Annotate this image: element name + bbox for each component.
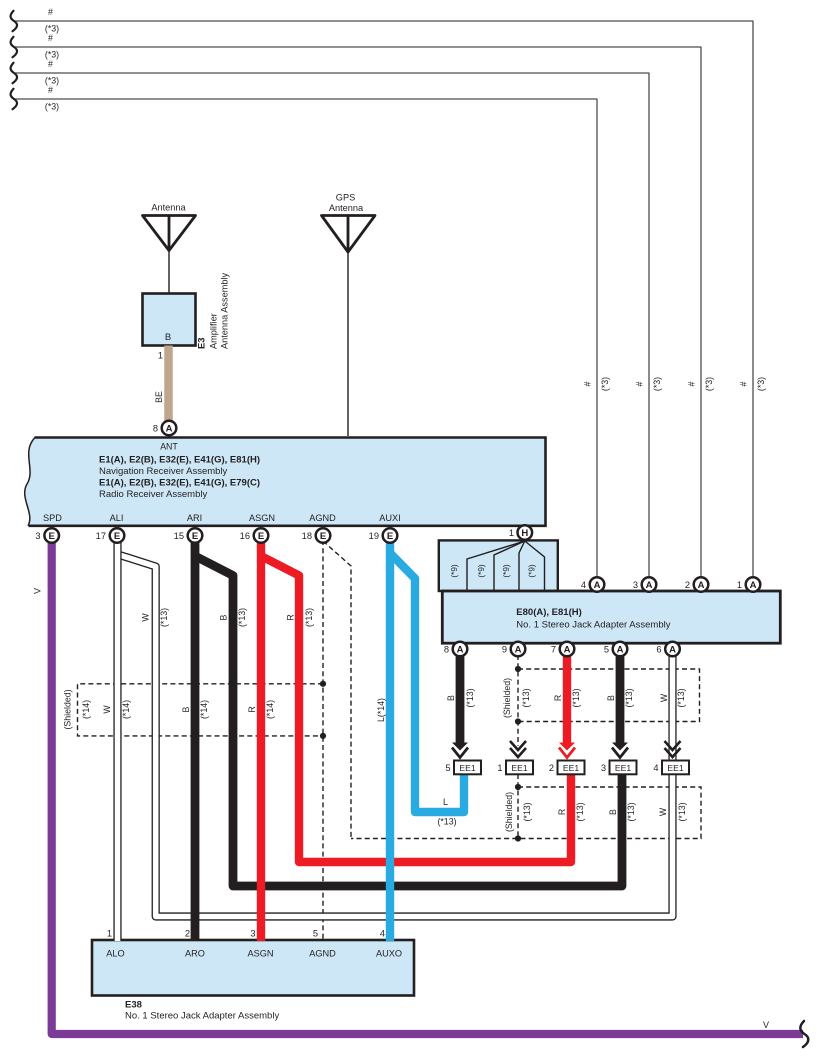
svg-text:EE1: EE1 — [615, 763, 631, 773]
svg-text:E: E — [192, 531, 198, 542]
svg-text:(*13): (*13) — [677, 802, 687, 821]
pin 3(E) SPD — [44, 528, 59, 543]
svg-text:E3: E3 — [196, 338, 207, 349]
svg-text:1: 1 — [158, 351, 163, 361]
svg-text:AUXO: AUXO — [376, 949, 402, 959]
label E3 Amplifier Antenna Assembly — [196, 272, 230, 349]
svg-text:Radio Receiver Assembly: Radio Receiver Assembly — [99, 489, 207, 500]
wire # (*3) to connector pin 2(A) of E80 — [11, 33, 715, 577]
wire R (*13) from E80 7(A) to EE1 2 — [563, 652, 571, 744]
wire # (*3) to connector pin 1(A) of E80 — [11, 7, 767, 577]
svg-text:Amplifier: Amplifier — [209, 313, 219, 349]
svg-text:R: R — [247, 706, 257, 712]
svg-text:(*13): (*13) — [575, 802, 585, 821]
antenna (AM/FM) symbol — [143, 203, 196, 251]
svg-text:(*14): (*14) — [199, 700, 209, 719]
wire shield drain branch from 18(E) to lower shield box — [323, 541, 351, 839]
wire B (*13) from E80 8(A) to EE1 5 — [456, 652, 465, 744]
pin 7(A) bottom of E80 — [560, 642, 575, 657]
joint connector EE1 pin 3 — [601, 761, 637, 775]
junction dot on shield — [515, 666, 521, 672]
svg-text:E: E — [114, 531, 120, 542]
svg-text:A: A — [564, 644, 571, 655]
joint connector EE1 pin 4 — [653, 761, 689, 775]
svg-text:(*9): (*9) — [528, 564, 537, 577]
svg-text:#: # — [48, 33, 53, 43]
svg-text:1: 1 — [509, 528, 514, 538]
svg-text:#: # — [48, 59, 53, 69]
svg-text:(*3): (*3) — [45, 50, 59, 60]
pin 3(A) of E80 — [642, 577, 657, 592]
junction dot on shield — [320, 681, 326, 687]
wire (*9) fan branch 4 inside H box — [525, 541, 545, 591]
svg-text:A: A — [594, 580, 601, 591]
svg-text:4: 4 — [581, 580, 586, 590]
svg-text:GPS: GPS — [336, 193, 355, 203]
svg-text:E: E — [49, 531, 55, 542]
svg-text:3: 3 — [601, 763, 606, 773]
svg-text:(Shielded): (Shielded) — [63, 689, 73, 729]
connector arrow into EE1 2 — [559, 743, 575, 751]
wire R (*14) from ASGN 16(E) to E38 ASGN — [257, 538, 265, 941]
svg-text:3: 3 — [35, 531, 40, 541]
wire (*9) fan branch 2 inside H box — [494, 541, 525, 591]
svg-text:A: A — [617, 644, 624, 655]
svg-text:A: A — [166, 423, 173, 434]
pin 1(H) of E81 — [518, 525, 533, 540]
svg-text:W: W — [658, 807, 668, 816]
pin 6(A) bottom of E80 — [665, 642, 680, 657]
svg-text:(*13): (*13) — [624, 688, 634, 707]
svg-text:(*3): (*3) — [652, 377, 662, 391]
pin 18(E) AGND — [316, 528, 331, 543]
svg-text:ASGN: ASGN — [247, 949, 273, 959]
svg-text:R: R — [286, 614, 296, 620]
svg-text:A: A — [669, 644, 676, 655]
connector arrow into EE1 3 — [612, 743, 628, 751]
svg-text:(Shielded): (Shielded) — [502, 678, 512, 718]
svg-text:B: B — [181, 706, 191, 712]
svg-text:E: E — [387, 531, 393, 542]
joint connector EE1 pin 2 — [549, 761, 585, 775]
svg-text:(*3): (*3) — [704, 377, 714, 391]
svg-text:ARI: ARI — [187, 513, 202, 523]
svg-text:(*9): (*9) — [450, 564, 459, 577]
joint connector EE1 pin 1 — [497, 761, 533, 775]
svg-text:B: B — [608, 809, 618, 815]
svg-text:A: A — [515, 644, 522, 655]
E80(A), E81(H) No. 1 Stereo Jack Adapter Assembly box — [442, 591, 780, 643]
svg-text:(*13): (*13) — [626, 802, 636, 821]
svg-text:SPD: SPD — [43, 513, 62, 523]
svg-text:(*14): (*14) — [265, 700, 275, 719]
svg-text:A: A — [457, 644, 464, 655]
svg-text:H: H — [521, 528, 528, 539]
wire (*9) fan branch 3 inside H box — [519, 541, 525, 591]
svg-text:ARO: ARO — [185, 949, 205, 959]
svg-text:AGND: AGND — [309, 949, 336, 959]
svg-text:1: 1 — [497, 763, 502, 773]
wire W (*13) from ALI 17(E) via jog to EE1 4 — [118, 555, 673, 917]
wire shield drain from AGND 18(E) straight to E38 AGND — [322, 540, 324, 941]
svg-text:#: # — [687, 381, 697, 386]
wire W (*14) from ALI 17(E) to E38 ALO — [113, 538, 121, 941]
svg-text:ANT: ANT — [160, 442, 178, 452]
svg-text:L(*14): L(*14) — [376, 698, 386, 722]
wire BE (beige) from amplifier to receiver ANT — [154, 346, 169, 425]
svg-text:1: 1 — [737, 580, 742, 590]
svg-text:2: 2 — [549, 763, 554, 773]
svg-text:A: A — [646, 580, 653, 591]
svg-text:Navigation Receiver Assembly: Navigation Receiver Assembly — [99, 466, 228, 477]
shielded cable box (*13) lower (E38 side) — [351, 787, 701, 839]
svg-text:W: W — [141, 613, 151, 622]
svg-text:15: 15 — [174, 531, 184, 541]
pin 4(A) of E80 — [590, 577, 605, 592]
wire W (*13) from E80 6(A) to EE1 4 — [668, 652, 676, 760]
svg-text:(*3): (*3) — [756, 377, 766, 391]
svg-text:2: 2 — [185, 929, 190, 939]
svg-text:(*13): (*13) — [521, 688, 531, 707]
svg-text:EE1: EE1 — [511, 763, 527, 773]
svg-text:B: B — [446, 695, 456, 701]
svg-text:9: 9 — [502, 644, 507, 654]
svg-text:(*3): (*3) — [600, 377, 610, 391]
svg-text:18: 18 — [302, 531, 312, 541]
junction dot on shield — [515, 718, 521, 724]
svg-text:E: E — [320, 531, 326, 542]
wire # (*3) to connector pin 3(A) of E80 — [11, 59, 663, 577]
Navigation / Radio Receiver Assembly box — [25, 438, 546, 526]
svg-text:(*13): (*13) — [522, 802, 532, 821]
pin 9(A) bottom of E80 — [511, 642, 526, 657]
shielded cable box (*13) upper (E80 side) — [518, 669, 700, 722]
svg-text:A: A — [698, 580, 705, 591]
svg-text:1: 1 — [107, 929, 112, 939]
svg-text:#: # — [635, 381, 645, 386]
svg-text:5: 5 — [604, 644, 609, 654]
pin 5(A) bottom of E80 — [613, 642, 628, 657]
joint connector EE1 pin 5 — [445, 761, 481, 775]
svg-text:5: 5 — [313, 929, 318, 939]
svg-text:16: 16 — [240, 531, 250, 541]
svg-text:3: 3 — [633, 580, 638, 590]
pin 8(A) ANT of receiver — [162, 421, 177, 436]
svg-text:AUXI: AUXI — [379, 513, 400, 523]
svg-text:A: A — [750, 580, 757, 591]
svg-text:4: 4 — [380, 929, 385, 939]
svg-text:No. 1 Stereo Jack Adapter Asse: No. 1 Stereo Jack Adapter Assembly — [125, 1011, 279, 1022]
connector arrow into EE1 1 — [510, 741, 526, 750]
svg-text:AGND: AGND — [309, 513, 336, 523]
svg-text:(*13): (*13) — [465, 688, 475, 707]
E38 No. 1 Stereo Jack Adapter Assembly box — [92, 940, 414, 996]
pin 17(E) ALI — [110, 528, 125, 543]
svg-text:#: # — [583, 381, 593, 386]
wire B (*14) from ARI 15(E) to E38 ARO — [191, 538, 200, 941]
svg-text:17: 17 — [96, 531, 106, 541]
svg-text:E80(A), E81(H): E80(A), E81(H) — [516, 607, 581, 618]
svg-text:Antenna Assembly: Antenna Assembly — [220, 272, 230, 349]
svg-text:(*14): (*14) — [81, 700, 91, 719]
svg-text:E38: E38 — [125, 1000, 142, 1011]
svg-text:R: R — [557, 809, 567, 815]
svg-text:(*9): (*9) — [502, 564, 511, 577]
svg-text:(*3): (*3) — [45, 76, 59, 86]
svg-text:19: 19 — [369, 531, 379, 541]
wire antenna lead to amplifier — [168, 251, 170, 294]
svg-text:#: # — [739, 381, 749, 386]
svg-text:#: # — [48, 85, 53, 95]
pin 2(A) of E80 — [694, 577, 709, 592]
pin 8(A) bottom of E80 — [453, 642, 468, 657]
svg-text:3: 3 — [250, 929, 255, 939]
wire B (*13) from ARI 15(E) via jog to EE1 3 — [195, 556, 622, 886]
svg-text:E1(A), E2(B), E32(E), E41(G),: E1(A), E2(B), E32(E), E41(G), E81(H) — [99, 455, 260, 466]
svg-text:(*13): (*13) — [159, 608, 169, 627]
pin 1(A) of E80 — [746, 577, 761, 592]
svg-text:B: B — [165, 332, 171, 343]
GPS antenna symbol — [322, 193, 376, 253]
svg-text:(Shielded): (Shielded) — [504, 792, 514, 832]
svg-text:(*9): (*9) — [477, 564, 486, 577]
svg-text:ALI: ALI — [110, 513, 124, 523]
wire # (*3) to connector pin 4(A) of E80 — [11, 85, 611, 577]
svg-text:6: 6 — [656, 644, 661, 654]
svg-text:V: V — [33, 588, 43, 594]
shielded cable box (*14) around W/B/R wires — [78, 684, 324, 736]
pin 16(E) ASGN — [254, 528, 269, 543]
svg-text:(*3): (*3) — [45, 102, 59, 112]
svg-text:(*3): (*3) — [45, 24, 59, 34]
pin 15(E) ARI — [188, 528, 203, 543]
svg-text:(*13): (*13) — [304, 608, 314, 627]
svg-text:BE: BE — [154, 391, 164, 403]
wire L (*14) from AUXI 19(E) to E38 AUXO — [386, 538, 394, 941]
svg-text:W: W — [659, 693, 669, 702]
svg-text:B: B — [606, 695, 616, 701]
svg-text:B: B — [219, 614, 229, 620]
connector arrow into EE1 5 — [452, 743, 468, 751]
svg-text:L: L — [443, 797, 448, 807]
wire B (*13) from E80 5(A) to EE1 3 — [616, 652, 625, 744]
junction dot on shield — [320, 733, 326, 739]
svg-text:2: 2 — [685, 580, 690, 590]
svg-text:Antenna: Antenna — [151, 203, 186, 213]
svg-text:R: R — [553, 695, 563, 701]
svg-text:W: W — [102, 705, 112, 714]
wire shield drain from E80 9(A) to EE1 1 — [517, 655, 519, 746]
svg-text:EE1: EE1 — [667, 763, 683, 773]
svg-text:ALO: ALO — [106, 949, 124, 959]
svg-text:EE1: EE1 — [459, 763, 475, 773]
pin 19(E) AUXI — [383, 528, 398, 543]
svg-text:(*13): (*13) — [676, 688, 686, 707]
wire R (*13) from ASGN 16(E) via jog to EE1 2 — [261, 556, 571, 862]
junction dot on shield — [515, 835, 521, 841]
svg-text:(*14): (*14) — [121, 700, 131, 719]
connector arrow into EE1 4 — [665, 741, 681, 750]
svg-text:ASGN: ASGN — [249, 513, 275, 523]
svg-text:8: 8 — [444, 644, 449, 654]
svg-text:E: E — [258, 531, 264, 542]
svg-text:E1(A), E2(B), E32(E), E41(G),: E1(A), E2(B), E32(E), E41(G), E79(C) — [99, 478, 260, 489]
connector H sub-box on E80 — [439, 540, 558, 591]
junction dot on shield — [515, 784, 521, 790]
svg-text:EE1: EE1 — [563, 763, 579, 773]
svg-text:V: V — [763, 1020, 769, 1030]
svg-text:(*13): (*13) — [237, 608, 247, 627]
svg-text:4: 4 — [653, 763, 658, 773]
wire GPS antenna lead to receiver — [347, 252, 349, 436]
svg-text:8: 8 — [153, 423, 158, 433]
svg-text:(*13): (*13) — [571, 688, 581, 707]
svg-text:7: 7 — [551, 644, 556, 654]
svg-text:5: 5 — [445, 763, 450, 773]
svg-text:Antenna: Antenna — [329, 203, 364, 213]
wire L (*13) from AUXI 19(E) via jog to EE1 5 — [391, 554, 464, 812]
wire (*9) fan branch 1 inside H box — [467, 541, 525, 591]
svg-text:No. 1 Stereo Jack Adapter Asse: No. 1 Stereo Jack Adapter Assembly — [516, 620, 670, 631]
svg-text:(*13): (*13) — [437, 817, 456, 827]
wire V (violet) from SPD 3(E) around to right edge — [52, 538, 803, 1034]
amplifier E3 Antenna Assembly box — [143, 294, 196, 346]
break symbol at violet wire end — [800, 1021, 808, 1047]
wire shield drain from EE1 1 down to lower shield box — [517, 774, 519, 839]
svg-text:#: # — [48, 7, 53, 17]
